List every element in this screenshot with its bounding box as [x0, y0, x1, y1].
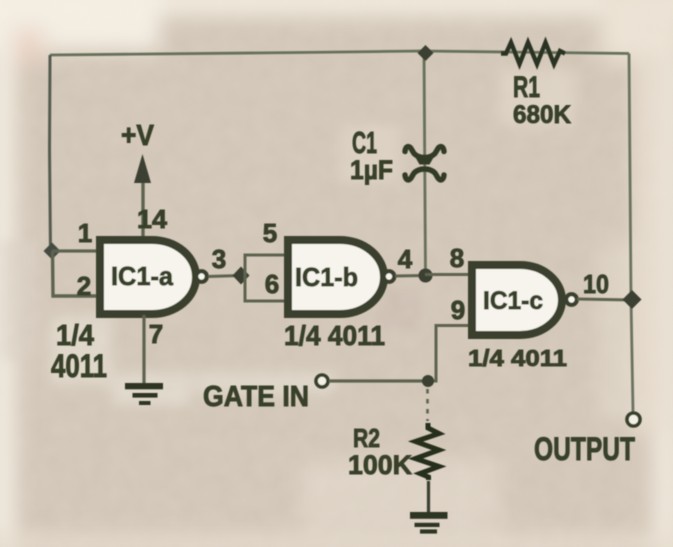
svg-text:9: 9 [451, 295, 465, 325]
wire pin9 [429, 326, 474, 382]
svg-text:7: 7 [149, 319, 163, 349]
svg-text:IC1-c: IC1-c [483, 287, 543, 315]
wire pin7 ground [142, 315, 145, 384]
svg-text:14: 14 [137, 204, 168, 234]
svg-text:IC1-a: IC1-a [111, 261, 174, 291]
resistor R1 [501, 43, 565, 65]
node junction output [623, 290, 642, 309]
svg-text:1/4 4011: 1/4 4011 [468, 345, 567, 371]
wire R2 bottom [427, 481, 430, 513]
ink layer [44, 43, 642, 534]
svg-text:+V: +V [121, 120, 155, 152]
node junction pin4/pin8 (C1 bottom) [419, 269, 433, 283]
wire pins 5-6 bracket [245, 255, 288, 301]
svg-text:OUTPUT: OUTPUT [534, 431, 635, 467]
wire pin3 [208, 276, 241, 277]
wire gate in [329, 379, 428, 382]
NAND gate IC1-a [100, 240, 196, 314]
svg-text:GATE IN: GATE IN [203, 381, 309, 413]
svg-text:R1: R1 [513, 71, 540, 104]
bubble IC1-b output [384, 271, 395, 282]
svg-text:IC1-b: IC1-b [295, 262, 358, 292]
svg-text:6: 6 [265, 269, 279, 299]
svg-text:100K: 100K [348, 450, 412, 480]
resistor R2 [416, 423, 440, 480]
+V power arrow [141, 178, 144, 242]
wire pin1 [52, 249, 100, 252]
svg-text:1µF: 1µF [350, 155, 393, 185]
ground under R2 [410, 512, 448, 534]
bubble IC1-c output [566, 294, 577, 305]
capacitor C1 [405, 147, 444, 158]
wire pin4 [395, 274, 425, 278]
wire C1 vertical [424, 53, 426, 275]
node junction left (pins 1-2 tie) [44, 243, 61, 260]
wire pin8 [425, 273, 474, 276]
ground under IC1-a [125, 383, 163, 405]
svg-text:1/4 4011: 1/4 4011 [284, 320, 385, 351]
wire top net (pins 1-2 to R1 to C1) [50, 51, 629, 55]
svg-text:4011: 4011 [51, 348, 107, 384]
node junction top (C1/top wire) [418, 45, 434, 61]
NAND gate IC1-b [288, 240, 384, 314]
svg-text:10: 10 [583, 269, 609, 299]
svg-text:2: 2 [77, 271, 91, 301]
wire pin10 [577, 299, 632, 300]
svg-text:R2: R2 [353, 423, 380, 453]
bubble IC1-a output [196, 271, 207, 282]
node junction gate in [422, 375, 434, 387]
wire right vertical [629, 54, 633, 412]
svg-text:3: 3 [212, 244, 226, 274]
NAND gate IC1-c [472, 265, 562, 335]
wire pin2 loop [53, 251, 101, 296]
svg-text:4: 4 [398, 244, 413, 274]
svg-text:8: 8 [450, 243, 464, 273]
svg-text:680K: 680K [513, 101, 571, 129]
wire R2 top (dashed) [426, 389, 429, 421]
terminal OUTPUT [627, 413, 640, 426]
terminal GATE IN [316, 375, 328, 387]
svg-text:1: 1 [78, 218, 92, 248]
wire left vertical [50, 55, 51, 252]
node junction pin3 (to pins 5-6) [233, 267, 250, 285]
svg-text:5: 5 [263, 218, 277, 248]
